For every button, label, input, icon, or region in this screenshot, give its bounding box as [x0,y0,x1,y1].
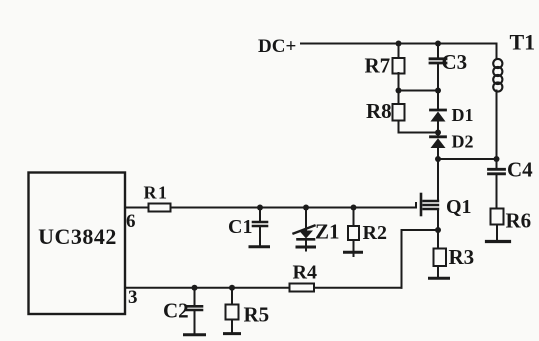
resistor R3 [434,230,475,277]
resistor R1 [144,183,171,212]
svg-text:6: 6 [126,211,136,232]
wire pin6 to R1 [125,207,149,209]
wire R4 to riser [314,287,402,289]
resistor R8 [366,99,405,133]
svg-text:R2: R2 [363,222,387,244]
svg-text:T1: T1 [510,30,536,55]
svg-text:R3: R3 [449,245,475,269]
resistor R4 [290,261,317,291]
ground for C1 [250,245,269,248]
wire drain node down to Q1 [437,159,439,201]
svg-text:Q1: Q1 [446,196,472,218]
node drain junction [435,156,441,162]
ground for R6 [487,240,510,243]
svg-text:D1: D1 [452,105,474,125]
ground for R2 [345,252,362,256]
ground for R3 [430,277,449,280]
svg-text:DC+: DC+ [258,36,296,57]
resistor R6 [491,209,532,241]
wire pin3 run [125,287,290,289]
svg-text:C2: C2 [163,299,189,323]
svg-text:R8: R8 [366,99,392,123]
wire R1 to Q1 gate [171,203,417,208]
wire drain node to T1/C4 node [438,158,497,160]
node C2 junction [192,285,198,291]
node R2 junction [351,205,357,211]
node rail to C3 [435,41,441,47]
svg-text:R4: R4 [293,261,317,283]
svg-text:UC3842: UC3842 [38,224,117,249]
wire R7 bottom to C3 bottom [399,90,439,92]
MOSFET Q1 [421,194,472,218]
node T1/C4 junction [494,156,500,162]
node C3/D1 junction [435,88,441,94]
zener Z1 [294,208,340,246]
resistor R5 [226,288,270,332]
node C1 junction [257,205,263,211]
svg-text:R1: R1 [144,183,169,203]
svg-text:C4: C4 [507,158,533,182]
resistor R2 [348,208,387,252]
node rail to R7 [396,41,402,47]
svg-text:R6: R6 [506,209,532,233]
svg-text:C3: C3 [442,50,468,74]
capacitor C4 [489,158,534,209]
svg-text:R7: R7 [365,54,391,78]
IC U1 UC3842 [29,173,126,315]
svg-text:3: 3 [128,287,138,308]
wire Q1 source down [437,209,439,230]
ground for Z1 [297,247,315,251]
svg-text:Z1: Z1 [315,220,340,244]
transformer T1 primary [493,30,535,160]
diode D2 [431,132,474,159]
wire R8 bottom to D1/D2 node [399,132,439,134]
ground for R5 [225,332,240,335]
capacitor C2 [163,288,202,333]
node R5 junction [229,285,235,291]
node source junction [435,227,441,233]
diode D1 [431,105,474,135]
capacitor C1 [228,208,267,246]
resistor R7 [365,44,405,105]
wire source to R4 line [402,230,439,288]
svg-text:D2: D2 [452,132,474,152]
node Z1 junction [303,205,309,211]
capacitor C3 [430,44,467,109]
node D1/D2 junction [435,130,441,136]
ground for C2 [185,333,205,336]
svg-text:C1: C1 [228,216,252,238]
wire DC+ rail [301,43,497,45]
node R7 bottom junction [396,88,402,94]
svg-text:R5: R5 [244,302,270,326]
